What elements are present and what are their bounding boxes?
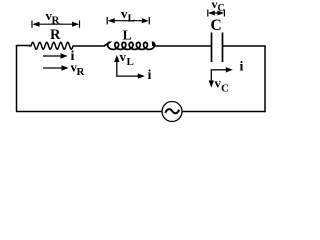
- wire left vertical: [16, 46, 18, 112]
- svg-text:i: i: [240, 60, 244, 75]
- wire capacitor to right: [223, 45, 266, 47]
- ac source: [162, 102, 182, 122]
- svg-text:C: C: [211, 17, 222, 34]
- svg-text:L: L: [128, 13, 135, 25]
- wire top left: [16, 45, 30, 47]
- resistor R: [29, 42, 73, 49]
- wire right vertical: [264, 46, 266, 113]
- inductor L: [104, 42, 155, 49]
- svg-text:i: i: [148, 68, 152, 83]
- wire bottom right: [182, 111, 266, 113]
- current arrow i below resistor: [43, 55, 62, 57]
- svg-text:R: R: [77, 66, 86, 78]
- current arrow i below inductor: [116, 75, 139, 77]
- wire resistor to inductor: [73, 45, 105, 47]
- svg-text:v: v: [120, 49, 127, 64]
- dimension arrow vL: [107, 17, 149, 24]
- voltage arrow vC below capacitor (down): [210, 69, 212, 82]
- voltage arrow vL below inductor (up): [116, 60, 118, 77]
- svg-text:C: C: [221, 83, 229, 95]
- voltage arrow vR below resistor: [43, 67, 63, 69]
- svg-text:L: L: [127, 56, 134, 68]
- wire bottom left: [16, 111, 162, 113]
- svg-text:R: R: [50, 27, 61, 43]
- svg-text:R: R: [52, 15, 61, 27]
- svg-text:C: C: [218, 3, 225, 14]
- svg-text:L: L: [123, 29, 132, 44]
- capacitor C plate right: [222, 33, 224, 63]
- wire inductor to capacitor: [153, 45, 212, 47]
- dimension arrow vR: [32, 21, 80, 28]
- capacitor C plate left: [211, 33, 213, 63]
- current arrow i below capacitor: [211, 69, 227, 71]
- dimension arrow vC: [208, 10, 225, 17]
